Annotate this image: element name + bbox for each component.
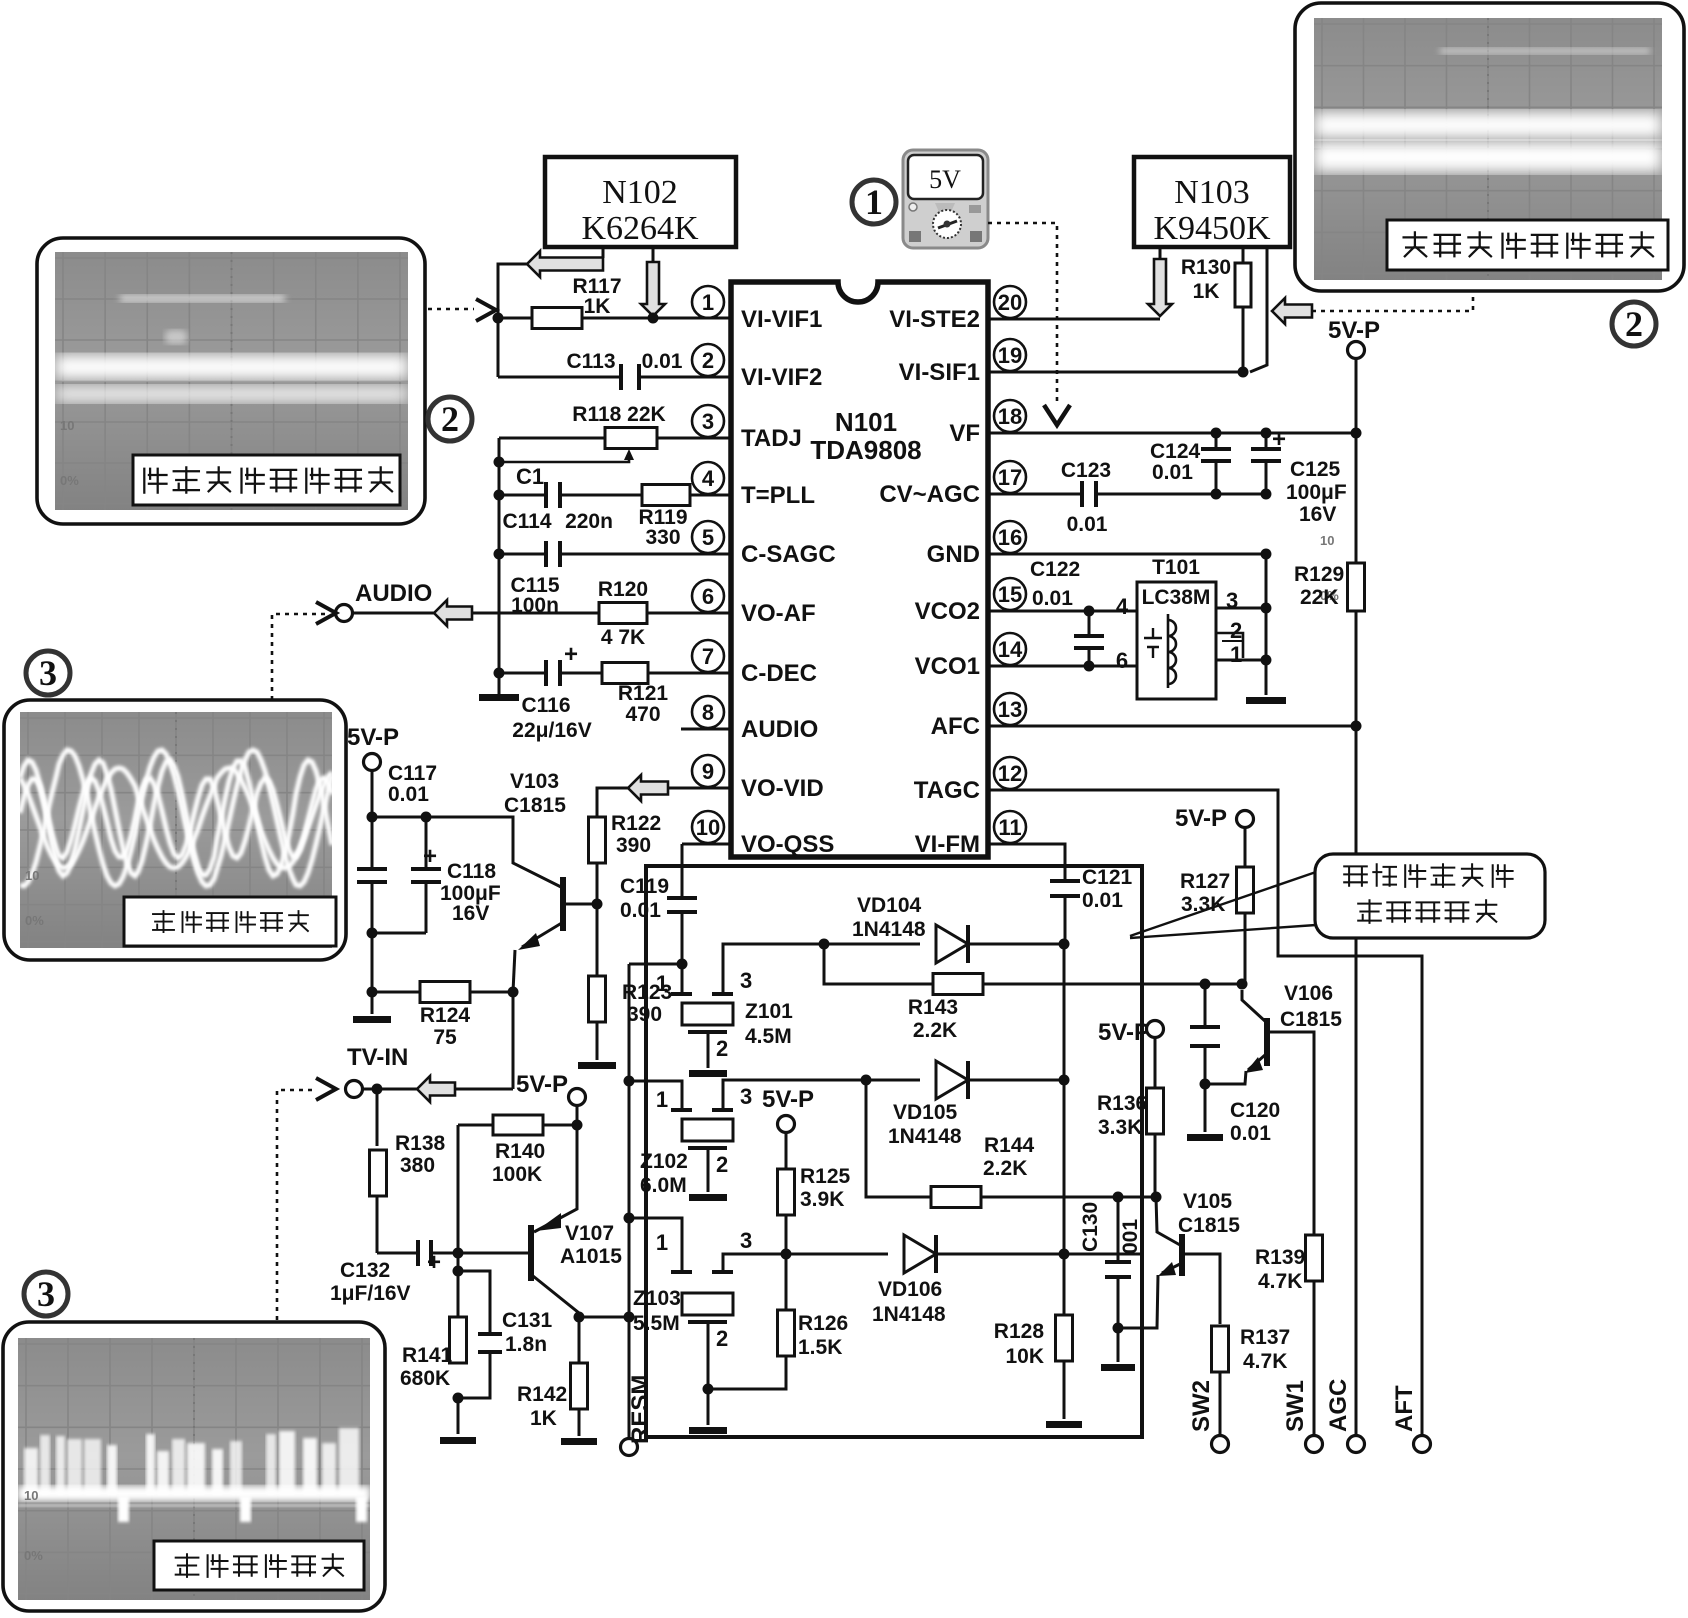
node Z101 pin1 [677,959,688,970]
svg-text:0.01: 0.01 [620,899,661,922]
node VD106 left [785,1214,788,1254]
node R136/V105 [1151,1192,1162,1203]
capacitor C123 [988,493,1081,496]
svg-text:R129: R129 [1294,563,1344,586]
svg-text:C113: C113 [566,350,615,373]
svg-text:R141: R141 [402,1344,453,1367]
arrow from N102 down [641,262,665,316]
oscilloscope photo 视频信号波形 [3,1322,385,1611]
resistor R141 [450,1317,467,1363]
wire R137 to SW2 [1219,1372,1222,1435]
svg-text:VO-AF: VO-AF [741,600,816,627]
svg-text:VI-SIF1: VI-SIF1 [899,359,980,386]
svg-text:10: 10 [1320,533,1334,548]
svg-text:5V-P: 5V-P [1098,1019,1150,1046]
svg-text:6.0M: 6.0M [640,1174,687,1197]
svg-text:0%: 0% [24,1548,43,1563]
svg-text:4.5M: 4.5M [745,1025,792,1048]
svg-text:4.7K: 4.7K [1243,1350,1287,1373]
svg-text:1.5K: 1.5K [798,1336,842,1359]
summing vertical [1063,944,1066,1316]
node R141 bottom [453,1393,464,1404]
svg-text:+: + [564,641,578,668]
potentiometer R118 [605,428,657,449]
resistor R144 [931,1187,981,1208]
vertical x458 [457,1125,460,1317]
svg-text:10: 10 [60,418,74,433]
svg-text:SW1: SW1 [1282,1380,1309,1432]
bandpass filter box [646,866,1142,1437]
node VD105 left [861,1075,872,1086]
svg-text:R125: R125 [800,1165,851,1188]
resistor R139 [1306,1235,1323,1281]
svg-text:C122: C122 [1030,558,1080,581]
dashed probe to photo3 [272,614,330,700]
svg-text:T101: T101 [1152,556,1200,579]
svg-text:8: 8 [702,700,714,725]
node R140 right [572,1120,583,1131]
svg-text:Z101: Z101 [745,1000,793,1023]
svg-text:C1815: C1815 [1178,1214,1240,1237]
svg-text:3: 3 [702,409,714,434]
SAW filter N103 K9450K [1134,157,1290,247]
callout box second sound IF bandpass filter [1315,854,1545,938]
svg-text:16: 16 [998,525,1022,550]
wire pin15 row VCO2 [988,610,1137,613]
svg-text:C123: C123 [1061,459,1111,482]
svg-text:20: 20 [998,290,1022,315]
dashed probe from photo2 [1312,293,1473,311]
svg-text:VI-FM: VI-FM [915,831,980,858]
svg-text:4 7K: 4 7K [601,626,645,649]
svg-text:VI-VIF2: VI-VIF2 [741,364,822,391]
svg-text:R136: R136 [1097,1092,1147,1115]
svg-text:+: + [423,843,437,870]
wire pin12 TAGC to AFT [988,790,1422,1435]
transistor V105 C1815 [1156,1197,1180,1245]
svg-text:3: 3 [740,968,752,993]
node R124 right / emitter [508,987,519,998]
svg-text:100μF: 100μF [1286,481,1347,504]
node C118 bottom [367,928,378,939]
resistor R126 [778,1310,795,1356]
capacitor C118 electrolytic [411,869,441,882]
svg-text:1: 1 [656,1230,668,1255]
svg-text:15: 15 [998,582,1022,607]
svg-text:6: 6 [702,584,714,609]
svg-text:GND: GND [927,541,980,568]
resistor R142 [571,1363,588,1409]
svg-text:AUDIO: AUDIO [355,580,432,607]
svg-text:3.3K: 3.3K [1098,1116,1142,1139]
IC N101 TDA9808 [731,282,988,857]
svg-text:4: 4 [702,466,715,491]
svg-text:AGC: AGC [1325,1379,1352,1432]
capacitor C113 [498,376,620,379]
ground R142 [578,1408,581,1436]
node R127 bottom [1237,979,1248,990]
svg-text:R127: R127 [1180,870,1230,893]
svg-text:5.5M: 5.5M [633,1312,680,1335]
node pin19 [1238,367,1249,378]
svg-text:3: 3 [740,1228,752,1253]
svg-text:10: 10 [696,815,720,840]
node C120 top [1200,979,1211,990]
svg-text:1: 1 [656,971,668,996]
wire VD105 to R144 [866,1080,931,1197]
svg-text:17: 17 [998,465,1022,490]
capacitor C132 [377,1252,417,1255]
svg-text:220n: 220n [565,510,613,533]
wire pin20 row [988,318,1160,321]
svg-text:14: 14 [998,637,1023,662]
svg-text:R128: R128 [994,1320,1045,1343]
ground T101 [1246,697,1286,704]
node C117 top [367,812,378,823]
capacitor C122 [1088,611,1091,636]
arrow AUDIO (hollow left) [353,612,434,615]
diode VD104 1N4148 [824,943,920,946]
svg-text:3: 3 [37,1274,55,1314]
transistor V106 C1815 [1242,990,1266,1022]
transistor V103 C1815 [560,877,566,931]
node base row [453,1248,464,1259]
wire GND down to T101 right [1265,554,1268,695]
svg-text:001: 001 [1119,1219,1142,1254]
wire T101 pin2 [1216,633,1243,658]
svg-text:R139: R139 [1255,1246,1305,1269]
svg-text:R144: R144 [984,1134,1035,1157]
svg-text:0%: 0% [60,473,79,488]
svg-text:0.01: 0.01 [1152,461,1193,484]
svg-text:R142: R142 [517,1383,567,1406]
node R124 left [367,987,378,998]
node VD104 left [819,939,830,950]
terminal RESM [621,1439,638,1456]
svg-text:4.7K: 4.7K [1258,1270,1302,1293]
arrow N103 left lead down [1159,247,1162,260]
svg-text:C121: C121 [1082,866,1133,889]
wire emitter to TV-IN row [512,992,515,1089]
svg-text:10: 10 [25,868,39,883]
svg-text:AUDIO: AUDIO [741,716,818,743]
svg-text:R130: R130 [1181,256,1231,279]
dashed probe line from photo1 [428,308,474,311]
wire pin14 row VCO1 [988,665,1137,668]
capacitor C119 [667,898,697,912]
arrow photo2 probe (hollow left) [1272,298,1312,324]
R118 wiper arm [499,456,629,462]
resistor R122 [589,817,606,863]
svg-text:VCO1: VCO1 [915,653,980,680]
resistor R120 [599,603,647,624]
node chain Z103 [624,1213,635,1224]
svg-text:V106: V106 [1284,982,1333,1005]
svg-text:R138: R138 [395,1132,446,1155]
svg-text:V103: V103 [510,770,559,793]
svg-text:+: + [427,1249,441,1276]
svg-text:R122: R122 [611,812,661,835]
svg-text:2.2K: 2.2K [913,1019,957,1042]
svg-text:1: 1 [656,1087,668,1112]
svg-text:AFT: AFT [1391,1385,1418,1432]
ceramic filter Z102 6.0M [629,1081,682,1110]
voltmeter icon 5V [903,150,988,248]
node chain Z102 [624,1076,635,1087]
svg-text:1K: 1K [584,295,611,318]
svg-text:1N4148: 1N4148 [872,1303,946,1326]
svg-text:R121: R121 [618,682,669,705]
svg-text:C124: C124 [1150,440,1201,463]
svg-text:2: 2 [716,1152,728,1177]
svg-text:Z102: Z102 [640,1150,688,1173]
arrow TV-IN (hollow left) [363,1088,417,1091]
svg-text:12: 12 [998,761,1022,786]
node TV-IN [372,1084,383,1095]
svg-text:R126: R126 [798,1312,848,1335]
svg-text:2: 2 [702,348,714,373]
svg-text:VD106: VD106 [878,1278,942,1301]
capacitor C121 [988,844,1065,881]
svg-text:C1: C1 [516,464,544,489]
svg-text:VI-VIF1: VI-VIF1 [741,306,822,333]
svg-text:N101: N101 [835,407,897,437]
wire T101 pin3 [1216,607,1266,610]
svg-text:0.01: 0.01 [388,783,429,806]
wire R139 to SW1 [1313,1282,1316,1435]
svg-text:T=PLL: T=PLL [741,482,815,509]
svg-text:5V-P: 5V-P [347,724,399,751]
resistor R130 [1242,247,1245,263]
ground R123 [596,1022,599,1060]
svg-text:VI-STE2: VI-STE2 [889,306,980,333]
svg-text:TDA9808: TDA9808 [810,435,921,465]
svg-text:5V-P: 5V-P [516,1071,568,1098]
svg-text:R137: R137 [1240,1326,1290,1349]
svg-text:380: 380 [400,1154,435,1177]
svg-text:R118 22K: R118 22K [572,403,665,426]
svg-text:16V: 16V [1299,503,1336,526]
svg-text:1N4148: 1N4148 [888,1125,962,1148]
svg-text:N103: N103 [1174,174,1250,211]
svg-text:2: 2 [716,1036,728,1061]
svg-text:R120: R120 [598,578,648,601]
resistor R128 [1056,1315,1073,1361]
svg-text:0.01: 0.01 [1230,1122,1271,1145]
svg-text:13: 13 [998,697,1022,722]
resistor R136 [1147,1088,1164,1134]
svg-text:5V-P: 5V-P [1175,805,1227,832]
wire N102 right lead [652,247,655,263]
svg-text:N102: N102 [602,174,678,211]
svg-text:C131: C131 [502,1309,553,1332]
diode VD105 1N4148 [866,1079,920,1082]
svg-text:11: 11 [998,815,1021,840]
svg-text:SW2: SW2 [1188,1380,1215,1432]
svg-text:1K: 1K [1193,280,1220,303]
svg-text:CV~AGC: CV~AGC [879,481,980,508]
ground R128 [1063,1360,1066,1419]
svg-text:C117: C117 [388,762,437,785]
resistor R129 [1355,433,1358,565]
node VD104 right / C121 [1059,939,1070,950]
svg-text:1N4148: 1N4148 [852,918,926,941]
ground R141 [457,1398,460,1434]
svg-text:2: 2 [1625,304,1643,344]
resistor R124 [372,991,420,994]
svg-text:9: 9 [702,759,714,784]
node V103 base [592,899,603,910]
terminal SW1 [1306,1436,1323,1453]
circled number 3 [26,651,70,695]
terminal AGC [1348,1436,1365,1453]
capacitor C114 [499,494,544,497]
svg-text:10: 10 [24,1488,38,1503]
wire pin16 GND row [988,553,1266,556]
circled number 2 [1612,302,1656,346]
terminal SW2 [1212,1436,1229,1453]
svg-text:3: 3 [740,1084,752,1109]
svg-text:VF: VF [949,420,980,447]
capacitor C115 [499,553,544,556]
svg-text:100K: 100K [492,1163,542,1186]
wire AGC line [1355,726,1358,1435]
wire N102 left lead [602,247,605,258]
svg-text:2: 2 [716,1326,728,1351]
resistor R140 [458,1124,493,1127]
circled number 1 [852,180,896,224]
svg-text:390: 390 [616,834,651,857]
svg-text:V105: V105 [1183,1190,1232,1213]
svg-text:1: 1 [865,182,883,222]
svg-text:5V-P: 5V-P [1328,317,1380,344]
wire collector row to chain [579,1316,629,1319]
svg-text:19: 19 [998,343,1022,368]
resistor R138 [376,1089,379,1146]
svg-text:7: 7 [702,644,714,669]
svg-text:TV-IN: TV-IN [347,1044,408,1071]
svg-text:3: 3 [39,653,57,693]
resistor R137 [1212,1326,1229,1372]
svg-text:5V: 5V [929,165,961,194]
capacitor C117 [357,869,387,882]
ceramic filter Z101 4.5M [681,964,684,994]
svg-text:VCO2: VCO2 [915,598,980,625]
svg-text:10K: 10K [1005,1345,1044,1368]
svg-text:AFC: AFC [931,713,980,740]
svg-text:C120: C120 [1230,1099,1280,1122]
svg-text:4: 4 [1116,594,1129,619]
svg-text:2: 2 [1230,618,1242,643]
svg-text:RESM: RESM [627,1375,654,1444]
svg-text:R143: R143 [908,996,958,1019]
svg-text:0.01: 0.01 [1067,513,1108,536]
svg-text:TAGC: TAGC [914,777,980,804]
svg-text:C114: C114 [502,510,551,533]
svg-text:470: 470 [625,703,660,726]
oscilloscope photo 伴音中频信号波形 [37,238,425,524]
resistor R125 [778,1169,795,1215]
svg-text:22K: 22K [1300,586,1339,609]
node chain V107 [624,1312,635,1323]
oscilloscope photo 图像中频信号波形 [1295,3,1684,291]
resistor R143 [824,944,933,984]
svg-text:C-DEC: C-DEC [741,660,817,687]
svg-text:+: + [1272,426,1286,453]
dashed probe meter to VF [988,223,1057,405]
svg-text:Z103: Z103 [633,1287,681,1310]
capacitor C120 [1204,984,1207,1027]
svg-text:C125: C125 [1290,458,1341,481]
terminal AFT [1414,1436,1431,1453]
resistor R121 [602,663,648,684]
wire pin3 row [499,437,606,440]
node collector [574,1312,585,1323]
svg-text:K9450K: K9450K [1153,210,1271,247]
wire pin18 VF row [988,432,1356,435]
svg-text:C119: C119 [620,875,669,898]
resistor R123 [589,976,606,1022]
svg-text:3.9K: 3.9K [800,1188,844,1211]
svg-text:0.01: 0.01 [642,350,683,373]
svg-text:75: 75 [433,1026,457,1049]
photo scale marks [24,418,1339,1563]
svg-text:5V-P: 5V-P [762,1086,814,1113]
wire pin19 row [988,371,1243,374]
svg-text:C116: C116 [521,694,570,717]
IF transformer T101 LC38M [1137,582,1216,699]
svg-text:1: 1 [1230,642,1242,667]
wire pin10 to C119 [682,843,731,846]
svg-text:5: 5 [702,525,714,550]
node R126/Z103 ground [703,1384,714,1395]
wire node to pin2 bus [498,264,527,377]
wire 5V-P row to V103 collector [372,817,563,888]
svg-text:680K: 680K [400,1367,450,1390]
diode VD106 1N4148 [786,1253,888,1256]
arrow into N102 (hollow left) [527,251,603,277]
wire to R122 [597,788,628,817]
svg-text:C1815: C1815 [504,794,566,817]
svg-text:6: 6 [1116,648,1128,673]
svg-text:0%: 0% [25,913,44,928]
svg-text:TADJ: TADJ [741,425,802,452]
svg-text:VO-VID: VO-VID [741,775,824,802]
svg-text:2.2K: 2.2K [983,1157,1027,1180]
wire pin9 row [668,787,731,790]
circled number 2 [428,397,472,441]
svg-text:C118: C118 [447,860,496,883]
svg-text:R124: R124 [420,1004,471,1027]
svg-text:C132: C132 [340,1259,390,1282]
svg-text:VO-QSS: VO-QSS [741,831,834,858]
node junction pin1 [493,313,504,324]
wire N103 right lead [1250,247,1267,372]
ceramic filter Z103 5.5M [629,1218,682,1272]
arrow VO-VID (hollow left) [628,775,668,801]
SAW filter N102 K6264K [545,157,736,247]
svg-text:V107: V107 [565,1222,614,1245]
svg-text:18: 18 [998,404,1022,429]
oscilloscope photo 音频信号波形 [4,700,346,960]
svg-text:LC38M: LC38M [1142,586,1211,609]
svg-text:0.01: 0.01 [1082,889,1123,912]
node C131 tee [453,1266,464,1277]
svg-text:R140: R140 [495,1140,545,1163]
svg-text:2: 2 [441,399,459,439]
svg-text:22μ/16V: 22μ/16V [512,719,591,742]
capacitor C116 electrolytic [499,672,544,675]
